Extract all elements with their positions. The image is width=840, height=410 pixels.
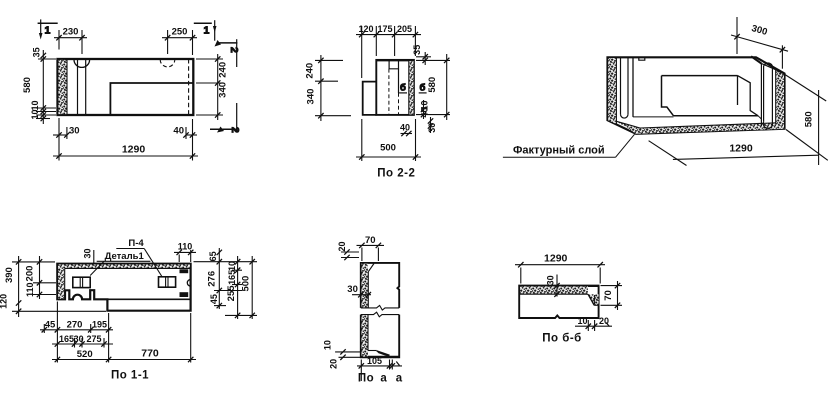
svg-text:10: 10: [30, 109, 40, 119]
svg-text:230: 230: [63, 27, 79, 38]
svg-text:40: 40: [173, 126, 184, 137]
svg-text:340: 340: [218, 82, 229, 98]
svg-text:1: 1: [204, 25, 210, 37]
section 2-2 left step: [363, 82, 377, 115]
svg-text:30: 30: [69, 126, 80, 137]
label Po 2-2: [377, 168, 415, 180]
section a-a upper break line: [361, 305, 399, 310]
section 1-1 left textured strip: [58, 264, 65, 299]
textured layer strip (left edge of elevation): [58, 59, 67, 115]
svg-text:110: 110: [178, 242, 193, 252]
left chain 240/340: [315, 55, 351, 121]
bottom small 40 dimension: [401, 131, 413, 136]
svg-text:1290: 1290: [544, 252, 568, 264]
axono left wall inner edge: [632, 57, 634, 117]
svg-text:120: 120: [0, 294, 9, 309]
section b-b textured band: [519, 286, 588, 294]
bottom dimension 1290: [53, 119, 198, 161]
right edge keyway notch bottom (filled): [180, 292, 189, 297]
axono right lifting rod: [763, 63, 772, 128]
left extension lines: [12, 262, 106, 311]
right chain 65/276/45: [217, 248, 222, 309]
svg-text:270: 270: [67, 319, 83, 330]
svg-text:10: 10: [30, 100, 40, 110]
svg-text:580: 580: [22, 77, 33, 93]
dimension 110 (top right): [174, 250, 196, 262]
svg-text:275: 275: [86, 334, 101, 344]
svg-text:б: б: [420, 83, 426, 94]
bottom right 30 dimension: [428, 117, 433, 133]
svg-text:175: 175: [377, 24, 392, 34]
right edge keyway notch top (filled): [180, 269, 189, 273]
dimension 30 (b-b band): [554, 275, 559, 297]
svg-text:580: 580: [427, 77, 438, 93]
svg-text:105: 105: [367, 356, 382, 366]
label P-4 with underline and leader: [128, 238, 144, 249]
section trace b-b with labels: [399, 83, 427, 94]
svg-text:165: 165: [227, 270, 237, 285]
elevation outline: [58, 59, 194, 115]
svg-text:240: 240: [218, 62, 229, 78]
svg-text:70: 70: [603, 290, 614, 301]
dimension 1290 (b-b top): [515, 262, 605, 284]
dimension 1290 (axono bottom): [649, 141, 819, 166]
dimension 300 (axono top right): [731, 17, 788, 69]
axono rim keyway notch: [639, 58, 645, 61]
section 2-2 inner edge: [398, 69, 400, 115]
lifting socket arc (dashed, right): [160, 60, 175, 67]
dimension 105 (a-a bottom): [357, 360, 402, 382]
svg-text:10: 10: [227, 261, 237, 271]
svg-text:10: 10: [577, 316, 587, 326]
bottom dimension 40: [183, 127, 197, 139]
svg-text:б: б: [400, 83, 406, 94]
section marker 1 (top left): [38, 19, 58, 39]
bottom dim row 45/270/195: [40, 327, 113, 332]
svg-text:770: 770: [141, 348, 159, 360]
dimensions 10/20 (a-a bottom left): [335, 349, 361, 360]
svg-text:Фактурный слой: Фактурный слой: [513, 145, 605, 157]
svg-text:255: 255: [226, 285, 237, 302]
svg-text:Деталь1: Деталь1: [105, 251, 145, 262]
svg-text:30: 30: [74, 334, 84, 344]
svg-text:165: 165: [59, 334, 74, 344]
right 35 dimension: [416, 52, 431, 65]
svg-text:1: 1: [45, 25, 51, 37]
section a-a lower textured strip: [362, 315, 369, 357]
axono left textured wall strip: [608, 57, 616, 124]
recess edge (inner rectangle): [110, 83, 193, 115]
svg-text:120: 120: [358, 24, 373, 34]
dimension 30 (a-a mid): [352, 292, 371, 297]
axono outer outline: [608, 57, 785, 134]
dimension 20 (a-a top left): [341, 249, 359, 260]
svg-text:1290: 1290: [729, 143, 753, 155]
svg-text:35: 35: [32, 47, 42, 57]
svg-text:а: а: [396, 373, 403, 385]
svg-text:340: 340: [306, 89, 317, 105]
right chain 500: [250, 256, 255, 319]
svg-text:1290: 1290: [122, 144, 146, 156]
section a-a lower part outline: [361, 315, 399, 358]
svg-text:30: 30: [83, 248, 93, 258]
svg-text:20: 20: [599, 316, 609, 326]
svg-text:30: 30: [546, 275, 556, 285]
svg-text:240: 240: [305, 63, 316, 79]
label Po 1-1: [111, 370, 149, 382]
svg-text:205: 205: [397, 24, 412, 34]
section b-b tapered wedge end: [588, 294, 599, 305]
svg-text:2: 2: [229, 127, 241, 133]
right chain 10/165/255: [235, 256, 240, 319]
svg-text:70: 70: [365, 235, 376, 246]
axono left lifting rod: [621, 58, 629, 118]
svg-text:10: 10: [323, 340, 333, 350]
section a-a lower break line: [361, 312, 399, 317]
hidden edge dashed line near right end: [188, 59, 190, 115]
right dimension chain 240/340: [196, 54, 223, 120]
svg-text:580: 580: [804, 111, 815, 127]
dimension 230 (top): [54, 30, 87, 54]
svg-text:500: 500: [241, 276, 252, 292]
axono front rim inner edge: [633, 116, 674, 118]
svg-text:По 2-2: По 2-2: [377, 168, 415, 180]
anchor box left: [73, 277, 90, 287]
svg-text:30: 30: [347, 284, 358, 295]
dimension 70 (a-a top): [357, 243, 385, 261]
svg-text:390: 390: [4, 267, 15, 283]
svg-text:2: 2: [228, 47, 240, 53]
dimension 70 (b-b right): [601, 281, 623, 310]
svg-text:500: 500: [380, 143, 396, 154]
axono right textured strip: [776, 70, 785, 128]
section 2-2 hidden line: [388, 69, 390, 115]
top dimensions 120/175/205: [356, 26, 421, 78]
svg-text:45: 45: [45, 319, 56, 330]
section 1-1 top textured band: [58, 264, 191, 268]
section 2-2 textured strip: [409, 60, 414, 115]
label Fakturniy sloy with leader: [513, 145, 605, 157]
svg-text:250: 250: [172, 27, 188, 38]
section a-a upper textured strip: [362, 264, 375, 308]
svg-text:35: 35: [412, 45, 422, 55]
section 2-2 main body: [376, 60, 414, 115]
axono bottom textured band: [616, 121, 784, 134]
section b-b outline: [519, 286, 598, 318]
bottom dim row 165/30/275: [52, 341, 113, 346]
anchor box right: [159, 277, 176, 287]
section a-a lower inner ledge and wedge: [368, 351, 390, 358]
label Po a-a: [358, 373, 403, 385]
svg-text:По: По: [358, 373, 374, 385]
dimension 580 (axono right): [785, 75, 828, 166]
bottom extension lines: [44, 302, 190, 363]
bottom dimension 500: [356, 119, 421, 161]
bottom right 40/10 dimensions: [421, 100, 426, 119]
axono right wall edges: [751, 56, 776, 126]
svg-text:П-4: П-4: [128, 238, 144, 249]
svg-text:20: 20: [329, 359, 339, 369]
bottom dimension 30: [53, 118, 70, 139]
label Detal 1 with underline and leader: [105, 251, 145, 262]
left dimension chain 580/35/10/10: [36, 50, 56, 124]
dimension 250 (top): [162, 30, 197, 55]
section marker 2 (right top): [215, 39, 241, 67]
right 580 dimension: [416, 54, 450, 120]
section a-a upper part outline: [361, 263, 399, 308]
svg-text:276: 276: [207, 271, 218, 287]
svg-text:40: 40: [400, 123, 410, 133]
left chain 200/110: [37, 256, 42, 299]
svg-text:По 1-1: По 1-1: [111, 370, 149, 382]
dimensions 10/20 (b-b bottom): [575, 320, 612, 331]
right edge semicircle recess: [187, 280, 190, 287]
section 2-2 top groove: [389, 61, 398, 69]
bottom dim row 520/770: [52, 357, 196, 362]
svg-text:200: 200: [25, 266, 36, 282]
svg-text:520: 520: [77, 349, 93, 360]
section 1-1 body/step dividing line: [107, 298, 190, 300]
svg-text:65: 65: [208, 251, 218, 261]
inner vertical joint lines: [78, 59, 86, 115]
section marker 2 (right bottom): [210, 103, 241, 133]
section 1-1 outline: [57, 264, 190, 311]
section marker 1 (top right): [194, 20, 217, 41]
svg-text:45: 45: [209, 294, 219, 304]
svg-text:а: а: [380, 373, 387, 385]
svg-text:40: 40: [420, 107, 430, 117]
label Po b-b: [542, 333, 582, 345]
hatch thickness mark 30: [93, 250, 95, 264]
right extension lines: [194, 262, 258, 316]
svg-text:20: 20: [337, 241, 347, 251]
svg-text:195: 195: [92, 319, 107, 329]
svg-text:30: 30: [427, 123, 437, 133]
axono inner cavity: [662, 76, 759, 116]
svg-text:110: 110: [25, 282, 35, 297]
svg-text:По б-б: По б-б: [542, 333, 582, 345]
left chain 390/120: [16, 256, 21, 317]
lifting socket arc (solid, left): [74, 60, 90, 68]
